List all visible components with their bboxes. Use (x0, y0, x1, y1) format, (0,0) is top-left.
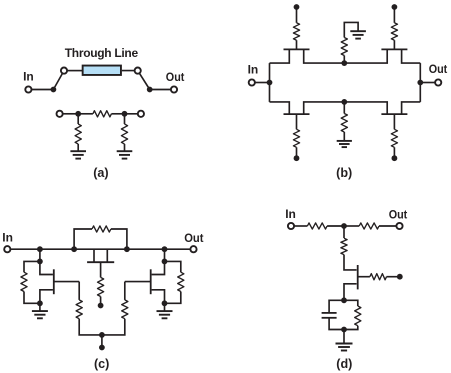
wire gate to resistor R8 (c) (78, 282, 80, 300)
svg-text:Out: Out (389, 207, 408, 221)
wire RC bottom to ground (d) (343, 330, 345, 343)
wire resistor R1 to node (a) (111, 113, 124, 115)
port In (c) terminal (4, 246, 10, 252)
wire R5 to ground (b) (343, 132, 345, 140)
wire resistor R2 to ground (a) (77, 144, 79, 151)
port Out (d) terminal (396, 223, 402, 229)
wire main rail (c) (10, 248, 190, 250)
wire node to resistor R3 (a) (124, 114, 126, 124)
wire In to node (a) (31, 89, 53, 91)
node gate bias terminal (d) (397, 274, 403, 280)
node right branch (c) (162, 259, 168, 265)
wire bias to terminal Q3 (b) (296, 147, 298, 158)
node Q5 gate terminal (c) (98, 303, 104, 309)
transistor Q3 gate bar (b) (284, 113, 310, 115)
ground right (a) (117, 150, 133, 152)
wire Q7 upper lead (c) (152, 261, 165, 274)
wire top loop right (c) (111, 229, 127, 249)
wire to resistor R9 (c) (165, 261, 181, 272)
transistor Q8 gate bar (d) (357, 265, 359, 289)
port Out (a) terminal (171, 86, 177, 92)
wire RC top right (d) (344, 300, 358, 306)
wire gate to resistor R10 (c) (124, 282, 126, 300)
wire right rail (b) (419, 63, 421, 102)
svg-text:Out: Out (166, 70, 185, 84)
transistor Q5 gate bar (c) (87, 261, 114, 263)
wire center to resistor R5 (b) (343, 102, 345, 114)
ground (d) (336, 343, 353, 345)
wire top rail right segment (b) (344, 49, 387, 63)
node shunt right (a) (122, 111, 128, 117)
node right bottom (c) (162, 300, 168, 306)
resistor R12 series right (d) (359, 223, 379, 229)
wire Q7 gate lead (c) (125, 281, 151, 283)
resistor Q4 gate bias (b) (391, 129, 397, 147)
svg-text:Out: Out (429, 62, 448, 76)
node Q2 bias terminal (b) (392, 4, 398, 10)
capacitor C1 (d) (322, 312, 337, 314)
wire R4 elbow to ground (b) (344, 22, 358, 37)
resistor R7 shunt left (c) (21, 272, 27, 291)
node switch contact right (a) (135, 68, 141, 74)
wire left rail (b) (269, 63, 271, 102)
wire RC top left (d) (329, 300, 344, 313)
through line TL1 (83, 66, 121, 75)
resistor Q2 gate bias (b) (391, 23, 397, 40)
wire node1 drop (c) (39, 249, 41, 261)
wire In to resistor R11 (d) (294, 225, 307, 227)
resistor R9 shunt right (c) (178, 272, 184, 291)
svg-text:(a): (a) (93, 166, 108, 180)
resistor R5 center bottom (b) (341, 114, 347, 133)
wire R7 to bottom node (c) (24, 292, 40, 304)
wire capacitor to RC bottom (d) (329, 318, 344, 330)
wire Q1 drain to center (b) (304, 49, 345, 63)
node shunt left (a) (75, 111, 81, 117)
node RC bottom (d) (341, 327, 347, 333)
resistor R11 series left (d) (307, 223, 327, 229)
resistor R2 shunt left (a) (75, 124, 81, 144)
wire Q5 drain lead (c) (106, 249, 108, 262)
ground right (c) (157, 310, 173, 312)
ground left (a) (70, 150, 86, 152)
resistor Q3 gate bias (b) (293, 129, 299, 147)
wire Q5 source lead (c) (93, 249, 95, 262)
wire Q7 lower lead (c) (152, 290, 165, 304)
wire Q2 drain to right rail (b) (402, 49, 421, 63)
wire Q4 gate lead (b) (393, 114, 395, 129)
node (a) input junction (51, 87, 57, 93)
transistor Q7 gate bar (c) (150, 269, 152, 294)
port In (b) terminal (249, 79, 255, 85)
node RC top (d) (341, 297, 347, 303)
resistor R13 shunt (d) (341, 238, 347, 254)
resistor R3 shunt right (a) (121, 124, 127, 144)
wire Q8 gate lead (d) (358, 276, 370, 278)
resistor R6 feedback (c) (92, 226, 111, 232)
svg-text:(c): (c) (94, 357, 109, 371)
wire Q6 lower lead (c) (40, 290, 53, 304)
wire node to resistor R1 (a) (78, 113, 93, 115)
wire node to resistor R2 (a) (77, 114, 79, 124)
wire In to left rail (b) (255, 82, 270, 84)
wire bottom rail left segment (b) (270, 102, 290, 114)
wire right bottom to ground (c) (164, 303, 166, 310)
node top center (b) (341, 60, 347, 66)
wire R13 to Q8 source (d) (344, 255, 357, 270)
node left rail (b) (267, 80, 273, 86)
wire Q5 gate to terminal (c) (100, 297, 102, 306)
node Q4 bias terminal (b) (392, 155, 398, 161)
wire contact to through line (a) (67, 70, 82, 72)
wire switch arm right (a) (138, 71, 150, 90)
wire top loop left (c) (74, 229, 92, 249)
node left branch (c) (37, 259, 43, 265)
wire R9 to bottom node (c) (165, 292, 181, 304)
wire switch arm left (a) (53, 71, 64, 90)
svg-text:In: In (285, 207, 296, 221)
node 3 (c) (124, 246, 130, 252)
wire node to resistor R13 (d) (343, 226, 345, 238)
svg-text:Through Line: Through Line (65, 46, 139, 60)
wire left terminal to node (a) (63, 113, 79, 115)
wire Q2 bias terminal lead (b) (393, 7, 395, 23)
wire R11 to node (d) (327, 225, 344, 227)
wire bias to terminal Q4 (b) (393, 147, 395, 158)
port Out (b) terminal (435, 79, 441, 85)
wire top rail left segment (b) (270, 49, 290, 63)
svg-text:(b): (b) (336, 166, 352, 180)
svg-text:In: In (2, 231, 13, 245)
port In (a) terminal (25, 86, 31, 92)
wire Q1 gate lead (b) (296, 40, 298, 49)
wire Q3 drain to center (b) (304, 102, 345, 114)
wire resistor R3 to ground (a) (124, 144, 126, 151)
wire left bottom to ground (c) (39, 303, 41, 310)
node (a) output junction (147, 87, 153, 93)
node switch contact left (a) (61, 68, 67, 74)
wire Q6 gate lead (c) (54, 281, 79, 283)
node bottom center (b) (341, 99, 347, 105)
transistor Q2 gate bar (b) (381, 48, 407, 50)
wire through line to contact (a) (122, 70, 138, 72)
resistor R1 series (a) (93, 111, 112, 117)
wire to resistor R7 (c) (24, 261, 40, 272)
resistor R8 left bias (c) (76, 300, 82, 319)
ground left (c) (32, 310, 48, 312)
node Q3 bias terminal (b) (294, 155, 300, 161)
node bias terminal (c) (99, 345, 105, 351)
svg-text:Out: Out (184, 231, 203, 245)
node series junction (d) (341, 223, 347, 229)
svg-text:(d): (d) (336, 357, 352, 371)
wire Q1 bias terminal lead (b) (296, 7, 298, 23)
node right rail (b) (417, 80, 423, 86)
node 2 (c) (71, 246, 77, 252)
wire R14 to terminal (d) (387, 276, 400, 278)
transistor Q4 gate bar (b) (381, 113, 407, 115)
wire bias junction stub (c) (101, 335, 103, 348)
port right terminal (a) shunt arm (138, 111, 144, 117)
wire Q5 gate lead (c) (100, 262, 102, 277)
port left terminal (a) shunt arm (57, 111, 63, 117)
wire node to right terminal (a) (125, 113, 141, 115)
wire node to Out (a) (150, 89, 171, 91)
node 4 (c) (162, 246, 168, 252)
ground bottom center (b) (337, 140, 352, 142)
wire Q8 drain lead (d) (344, 284, 357, 301)
wire resistor to RC bottom (d) (344, 326, 358, 330)
wire node to resistor R12 (d) (344, 225, 359, 227)
resistor Q1 gate bias (b) (293, 23, 299, 40)
wire Q3 gate lead (b) (296, 114, 298, 129)
transistor Q6 gate bar (c) (53, 269, 55, 294)
wire Q6 upper lead (c) (40, 261, 53, 274)
resistor R15 (d) (355, 306, 361, 326)
node left bottom (c) (37, 300, 43, 306)
node Q1 bias terminal (b) (294, 4, 300, 10)
wire R12 to Out (d) (379, 225, 396, 227)
wire Q2 gate lead (b) (393, 40, 395, 49)
resistor R14 gate (d) (370, 274, 387, 280)
resistor R4 center top (b) (341, 38, 347, 56)
port In (d) terminal (288, 223, 294, 229)
node bias junction (c) (99, 332, 105, 338)
svg-text:In: In (23, 70, 34, 84)
resistor Q5 gate (c) (98, 277, 104, 296)
ground top center (b) (350, 30, 366, 32)
wire center to resistor R4 (b) (343, 56, 345, 64)
wire right rail to Out (b) (420, 82, 435, 84)
svg-text:In: In (248, 62, 259, 76)
resistor R10 right bias (c) (122, 300, 128, 319)
wire bottom rail right segment (b) (344, 102, 387, 114)
wire R8 to center node (c) (79, 319, 102, 335)
wire Q4 drain to right rail (b) (402, 102, 421, 114)
wire node4 drop (c) (164, 249, 166, 261)
transistor Q1 gate bar (b) (284, 48, 310, 50)
node 1 (c) (37, 246, 43, 252)
port Out (c) terminal (190, 246, 196, 252)
wire R10 to center node (c) (102, 319, 125, 335)
